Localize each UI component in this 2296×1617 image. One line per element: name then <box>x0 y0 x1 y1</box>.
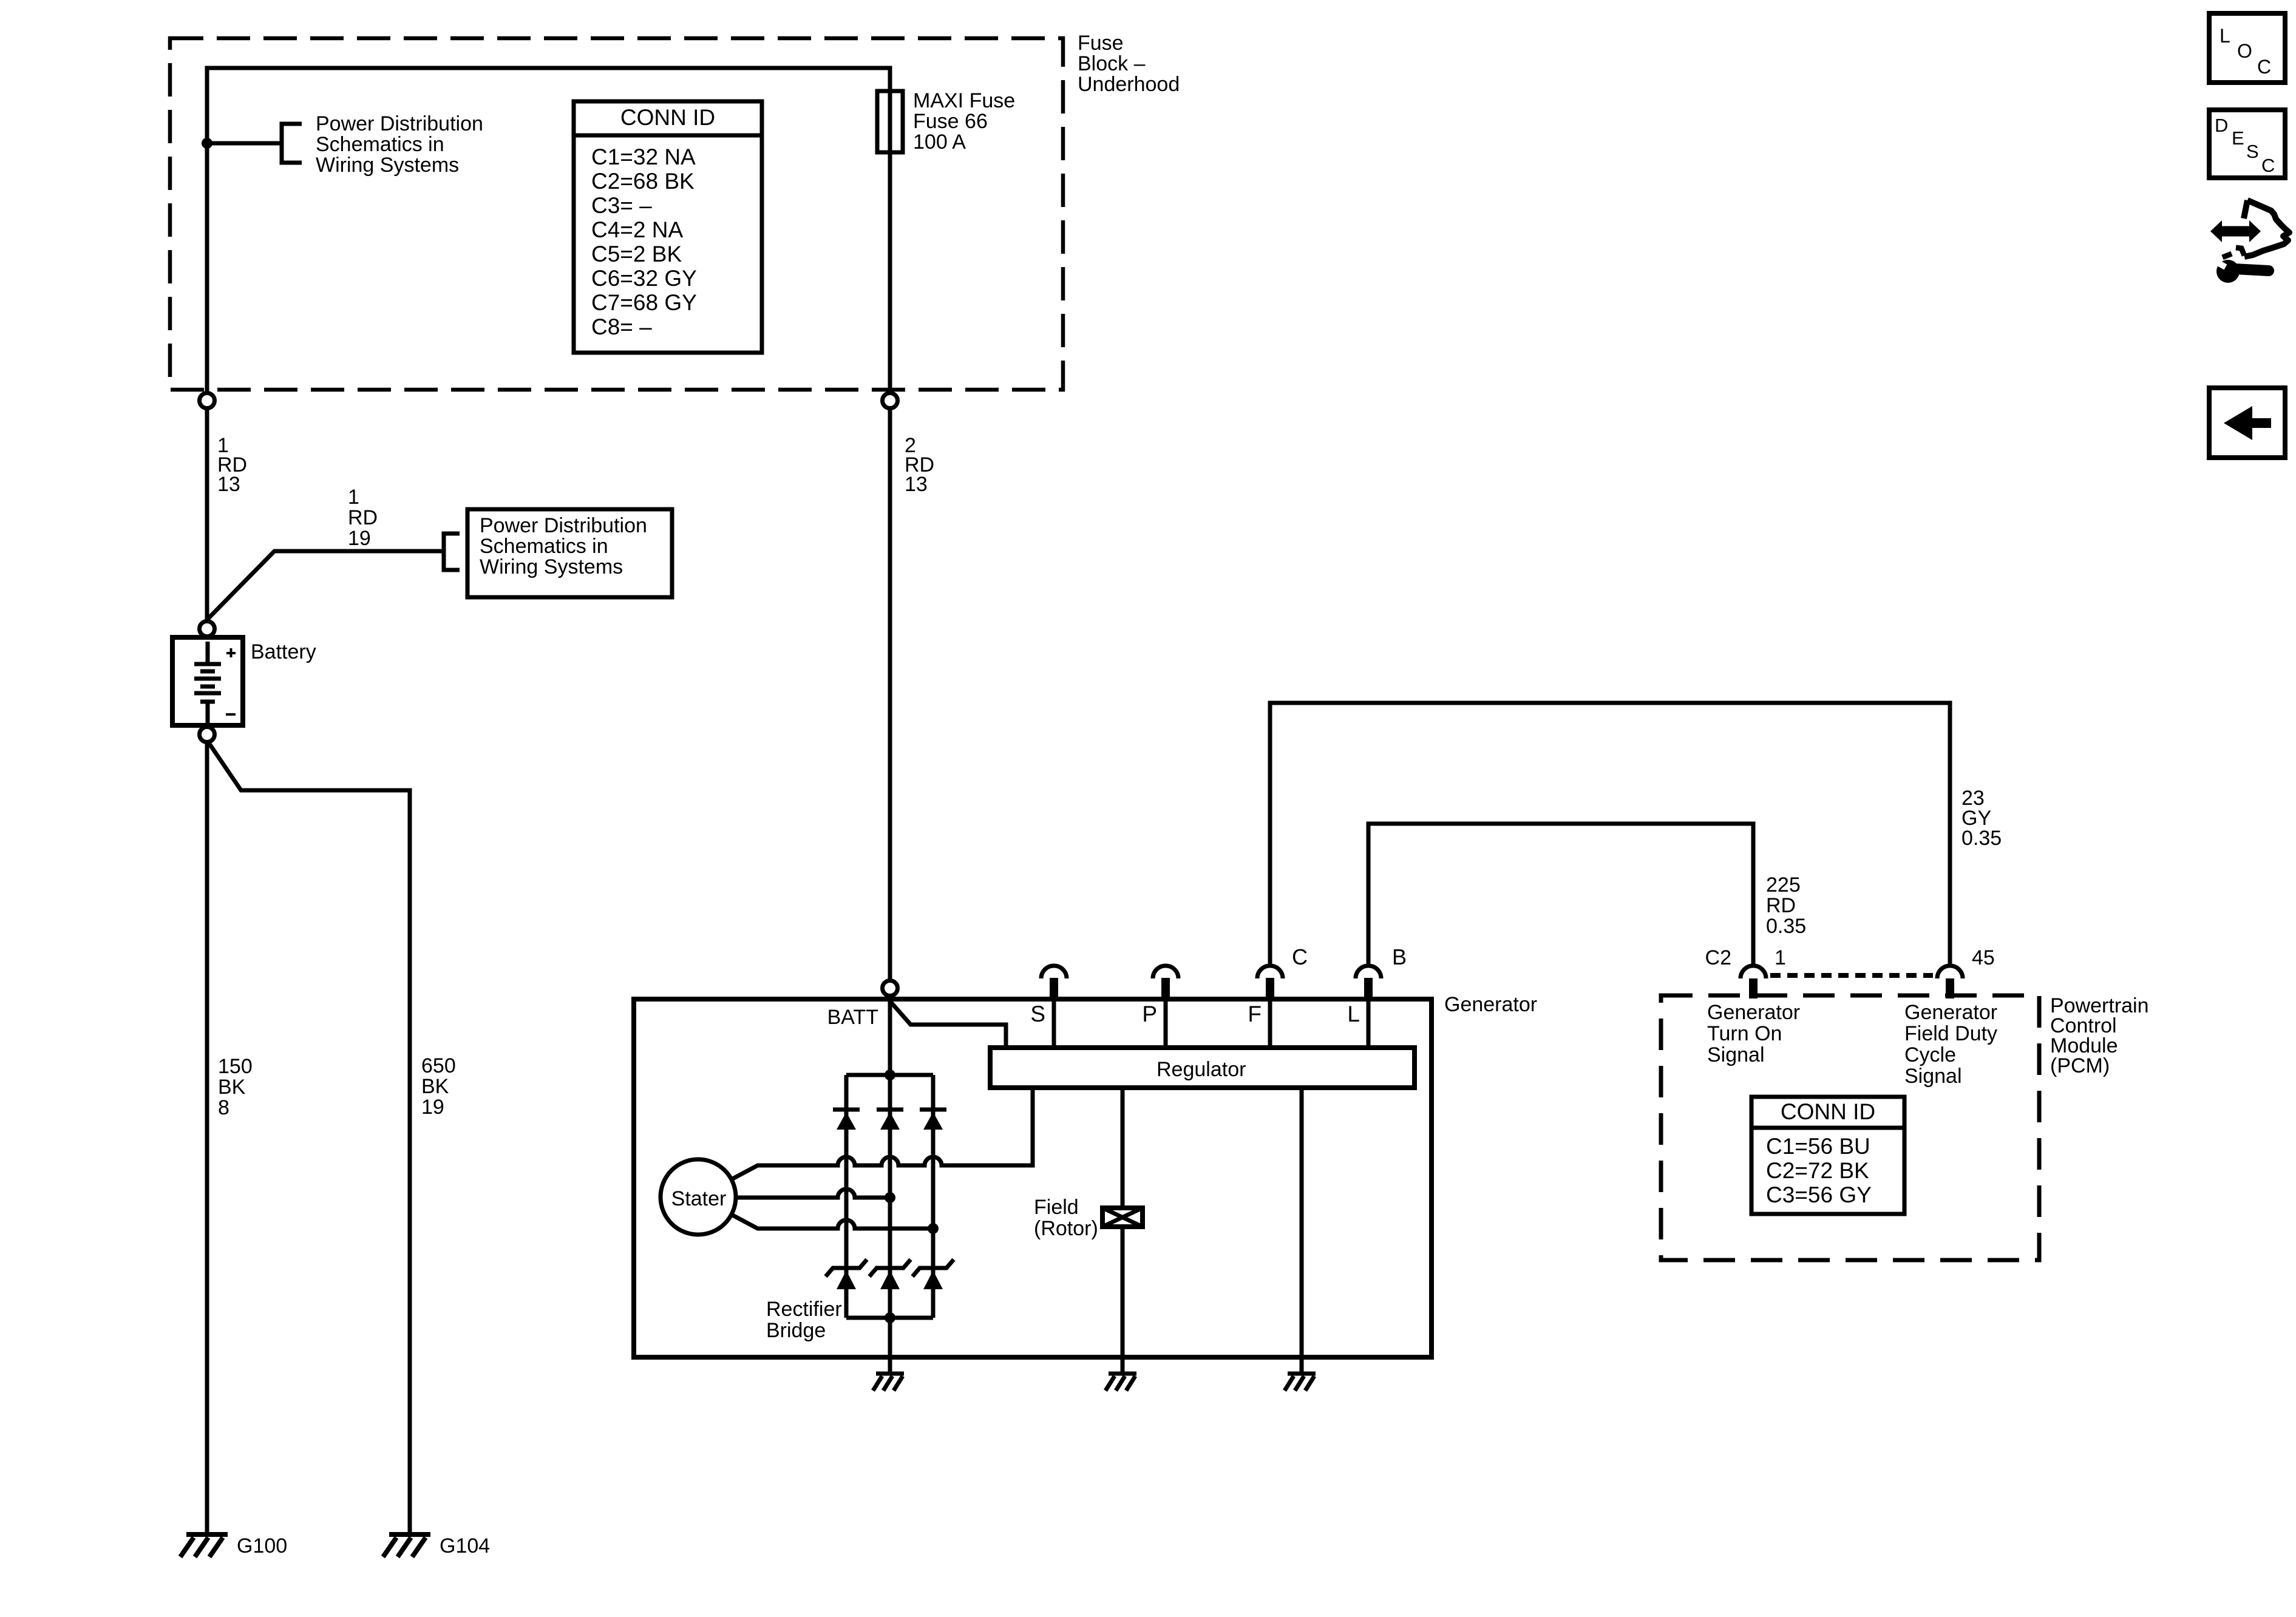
generator terminal L connector arc <box>1356 966 1381 978</box>
svg-text:Rectifier: Rectifier <box>766 1298 842 1321</box>
junction dot (bottom rail) <box>885 1312 895 1323</box>
stator winding circle <box>661 1159 736 1235</box>
ground (rectifier) <box>876 1372 904 1376</box>
svg-text:(Rotor): (Rotor) <box>1034 1217 1098 1240</box>
svg-text:Power Distribution: Power Distribution <box>480 514 647 537</box>
connector circle BATT <box>883 981 898 996</box>
wire: circuit 1 RD to battery <box>205 408 209 622</box>
svg-text:Fuse 66: Fuse 66 <box>913 110 988 133</box>
svg-text:Wiring Systems: Wiring Systems <box>480 555 623 578</box>
generator terminal S lead to regulator <box>1052 999 1056 1048</box>
svg-text:Fuse: Fuse <box>1078 32 1124 55</box>
svg-text:C: C <box>2257 56 2271 78</box>
generator terminal S connector arc <box>1041 966 1067 978</box>
icon: wrench <box>2216 260 2240 283</box>
wire: battery negative to G100 <box>205 742 209 1533</box>
generator terminal L pin <box>1364 978 1373 1002</box>
PCM connector arc 1 <box>1741 966 1766 978</box>
generator terminal F pin <box>1266 978 1274 1002</box>
svg-text:Stater: Stater <box>671 1187 727 1210</box>
svg-text:Battery: Battery <box>251 640 316 663</box>
svg-text:Signal: Signal <box>1904 1065 1962 1088</box>
wire: regulator F output to field <box>1121 1088 1125 1208</box>
svg-text:0.35: 0.35 <box>1766 915 1806 938</box>
svg-text:C7=68 GY: C7=68 GY <box>591 290 697 315</box>
dashed connector face line <box>1770 973 1933 978</box>
svg-text:C3= –: C3= – <box>591 193 652 218</box>
wire: field to ground <box>1121 1227 1125 1373</box>
wire: center column to ground <box>888 1075 892 1373</box>
stator lead 2 (to center rectifier column) <box>736 1189 890 1198</box>
svg-text:225: 225 <box>1766 873 1801 897</box>
generator terminal P pin <box>1161 978 1170 1002</box>
CONN ID table (fuse block) frame <box>574 101 762 353</box>
battery positive connector circle <box>200 622 215 637</box>
svg-text:Generator: Generator <box>1444 993 1537 1016</box>
junction dot (lead 3) <box>928 1223 939 1234</box>
svg-text:45: 45 <box>1972 946 1995 969</box>
rectifier top diodes <box>833 1108 860 1112</box>
svg-text:C8= –: C8= – <box>591 314 652 339</box>
generator terminal S pin <box>1050 978 1058 1002</box>
CONN ID table header separator <box>574 134 762 138</box>
ground G100 symbol <box>186 1532 228 1537</box>
svg-text:(PCM): (PCM) <box>2050 1054 2110 1077</box>
svg-text:Signal: Signal <box>1707 1043 1765 1066</box>
wire: generator C to PCM pin 45 <box>1270 703 1950 965</box>
icon: LOC box <box>2209 13 2285 83</box>
svg-text:150: 150 <box>218 1055 253 1078</box>
svg-text:BK: BK <box>218 1076 246 1099</box>
svg-text:C2=68 BK: C2=68 BK <box>591 169 695 194</box>
svg-text:D: D <box>2215 115 2228 136</box>
junction dot (lead 2) <box>885 1192 895 1203</box>
ground (field) <box>1109 1372 1136 1376</box>
svg-text:F: F <box>1248 1002 1262 1026</box>
generator terminal F connector arc <box>1257 966 1283 978</box>
svg-text:Generator: Generator <box>1707 1001 1800 1024</box>
PCM connector arc 45 <box>1937 966 1963 978</box>
svg-text:C6=32 GY: C6=32 GY <box>591 266 697 291</box>
svg-text:E: E <box>2232 127 2244 149</box>
wire: branch to power distribution reference <box>207 141 280 146</box>
svg-text:650: 650 <box>421 1054 456 1077</box>
svg-text:C: C <box>2261 155 2275 176</box>
svg-text:Bridge: Bridge <box>766 1319 826 1342</box>
svg-text:RD: RD <box>348 506 378 529</box>
svg-text:C1=56 BU: C1=56 BU <box>1766 1134 1870 1159</box>
wire: circuit 2 RD to generator BATT <box>888 408 892 981</box>
wire: regulator L leg to ground <box>1300 1088 1304 1373</box>
svg-text:Schematics in: Schematics in <box>480 535 608 558</box>
reference box: Power Distribution Schematics in Wiring Systems <box>467 509 672 597</box>
icon: DESC box <box>2209 110 2285 178</box>
svg-text:P: P <box>1142 1002 1157 1026</box>
svg-text:MAXI Fuse: MAXI Fuse <box>913 89 1015 112</box>
generator terminal P connector arc <box>1153 966 1178 978</box>
PCM connector pin 1 <box>1749 978 1758 998</box>
battery cell plates <box>206 642 210 662</box>
svg-text:L: L <box>1347 1002 1360 1026</box>
wire: BATT feed into rectifier bridge <box>888 995 892 1075</box>
svg-text:Underhood: Underhood <box>1078 73 1180 96</box>
fuse: MAXI Fuse 66 element <box>877 91 903 152</box>
PCM CONN ID table frame <box>1751 1097 1904 1214</box>
svg-text:Regulator: Regulator <box>1156 1058 1246 1081</box>
battery minus sign <box>226 713 236 716</box>
svg-text:C: C <box>1292 944 1308 969</box>
ground (regulator) <box>1288 1372 1316 1376</box>
svg-text:S: S <box>1030 1002 1045 1026</box>
junction dot (bus to ref branch) <box>202 138 212 149</box>
svg-text:Block –: Block – <box>1078 52 1146 75</box>
svg-text:C3=56 GY: C3=56 GY <box>1766 1182 1872 1207</box>
svg-text:Field Duty: Field Duty <box>1904 1022 1997 1045</box>
svg-text:CONN ID: CONN ID <box>1781 1099 1875 1124</box>
svg-text:B: B <box>1392 944 1407 969</box>
generator terminal P lead to regulator <box>1164 999 1168 1048</box>
powertrain control module dashed box <box>1661 995 2039 1260</box>
svg-text:C4=2 NA: C4=2 NA <box>591 217 683 242</box>
stator lead 1 (to regulator sense) <box>730 1089 1033 1180</box>
svg-text:1: 1 <box>348 486 359 509</box>
svg-text:Schematics in: Schematics in <box>316 133 444 156</box>
bracket: power distribution reference 2 <box>444 534 460 570</box>
svg-text:C5=2 BK: C5=2 BK <box>591 242 682 266</box>
svg-text:Power Distribution: Power Distribution <box>316 112 483 135</box>
svg-text:L: L <box>2220 25 2230 47</box>
connector circle (fuse block pin 1) <box>200 393 215 408</box>
bracket: power distribution reference <box>282 124 302 163</box>
wire: BATT branch to regulator <box>888 999 1006 1049</box>
generator box <box>634 999 1432 1357</box>
battery negative connector circle <box>200 727 215 742</box>
connector circle (fuse block pin 2) <box>883 393 898 408</box>
PCM connector pin 45 <box>1946 978 1954 998</box>
wire: battery negative to G104 <box>209 743 410 1533</box>
svg-text:RD: RD <box>1766 894 1796 917</box>
generator terminal F lead to regulator <box>1268 999 1272 1048</box>
generator terminal L lead to regulator <box>1367 999 1371 1048</box>
svg-text:100 A: 100 A <box>913 131 966 154</box>
battery box <box>172 637 243 725</box>
ground G104 symbol <box>389 1532 430 1537</box>
wire: branch to power distribution reference 2 <box>207 551 443 620</box>
svg-text:G100: G100 <box>237 1534 287 1558</box>
svg-text:Cycle: Cycle <box>1904 1043 1956 1066</box>
svg-text:19: 19 <box>421 1096 444 1119</box>
rectifier bottom avalanche diodes <box>826 1259 867 1276</box>
svg-text:8: 8 <box>218 1096 229 1119</box>
wire: fuse block internal bus <box>207 68 890 396</box>
PCM CONN ID header separator <box>1751 1126 1904 1130</box>
svg-text:13: 13 <box>905 473 928 496</box>
svg-text:Turn On: Turn On <box>1707 1022 1782 1045</box>
svg-text:13: 13 <box>217 473 240 496</box>
svg-text:BATT: BATT <box>827 1006 878 1029</box>
rectifier bridge rails <box>846 1073 933 1077</box>
svg-text:C2: C2 <box>1705 946 1731 969</box>
svg-text:CONN ID: CONN ID <box>620 105 715 130</box>
svg-text:0.35: 0.35 <box>1961 827 2002 850</box>
svg-text:1: 1 <box>1775 946 1786 969</box>
svg-text:C2=72 BK: C2=72 BK <box>1766 1158 1869 1183</box>
svg-text:O: O <box>2237 40 2252 62</box>
junction dot (BATT / rectifier top rail) <box>885 1070 895 1080</box>
svg-text:19: 19 <box>348 527 371 550</box>
svg-text:Wiring Systems: Wiring Systems <box>316 154 459 177</box>
icon: back arrow <box>2224 406 2271 440</box>
regulator box <box>990 1048 1415 1088</box>
svg-text:G104: G104 <box>440 1534 490 1558</box>
wire: generator B to PCM pin 1 <box>1368 824 1753 965</box>
svg-text:S: S <box>2246 141 2259 162</box>
battery plus sign <box>226 648 236 657</box>
stator lead 3 (to right rectifier column) <box>730 1214 933 1229</box>
icon: part outline with double arrow <box>2210 220 2261 242</box>
svg-text:Generator: Generator <box>1904 1001 1997 1024</box>
icon: back arrow box <box>2209 388 2285 458</box>
svg-text:Field: Field <box>1034 1196 1079 1219</box>
svg-text:BK: BK <box>421 1075 449 1098</box>
svg-text:C1=32 NA: C1=32 NA <box>591 144 696 169</box>
field (rotor) winding symbol <box>1102 1208 1143 1227</box>
fuse block - underhood (dashed outline) <box>170 38 1063 390</box>
